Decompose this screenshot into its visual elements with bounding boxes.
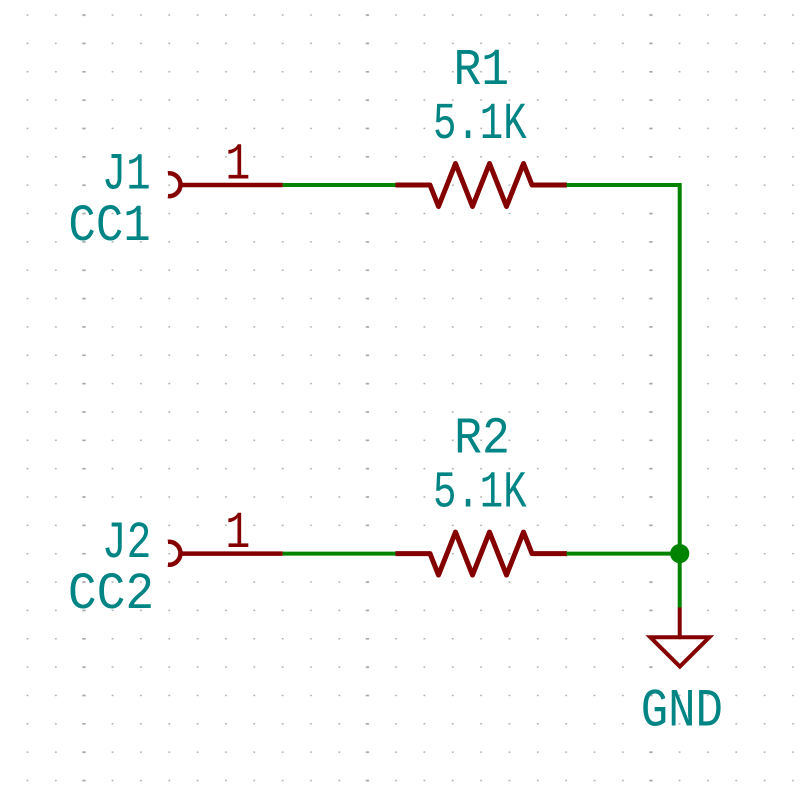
svg-text:CC1: CC1 — [68, 197, 150, 256]
svg-text:J1: J1 — [102, 146, 151, 205]
pin 1 of J1 — [181, 183, 283, 188]
ground — [650, 608, 709, 667]
svg-text:5.1K: 5.1K — [433, 463, 527, 522]
connector J1 — [168, 173, 181, 196]
pin 1 of J2 — [181, 551, 283, 556]
svg-text:CC2: CC2 — [68, 565, 154, 624]
resistor R1 — [396, 164, 568, 207]
svg-text:GND: GND — [641, 682, 723, 743]
wire junction to GND — [678, 554, 682, 608]
svg-text:1: 1 — [225, 137, 250, 196]
junction — [670, 544, 689, 563]
svg-text:1: 1 — [225, 505, 250, 564]
svg-text:5.1K: 5.1K — [433, 95, 527, 154]
wire R1 to corner and down to junction — [567, 185, 680, 554]
wire J2 pin to R2 — [283, 552, 396, 556]
svg-text:R1: R1 — [453, 41, 509, 100]
wire R2 to junction — [567, 552, 680, 556]
resistor R2 — [396, 532, 568, 575]
svg-text:R2: R2 — [454, 410, 510, 469]
connector J2 — [168, 542, 181, 565]
wire J1 pin to R1 — [283, 183, 396, 187]
